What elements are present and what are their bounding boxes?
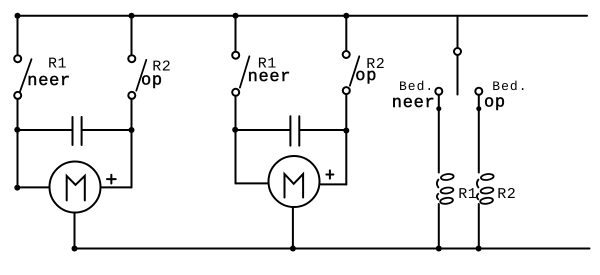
svg-text:neer: neer <box>392 94 436 113</box>
svg-text:Bed.: Bed. <box>399 79 434 94</box>
svg-text:R1: R1 <box>458 186 477 203</box>
svg-text:R2: R2 <box>497 186 516 203</box>
svg-text:R1: R1 <box>48 56 67 73</box>
svg-text:op: op <box>141 72 163 91</box>
svg-text:op: op <box>355 67 377 86</box>
svg-text:neer: neer <box>27 72 71 91</box>
svg-text:op: op <box>484 94 506 113</box>
svg-text:neer: neer <box>248 68 292 87</box>
svg-text:Bed.: Bed. <box>492 79 527 94</box>
